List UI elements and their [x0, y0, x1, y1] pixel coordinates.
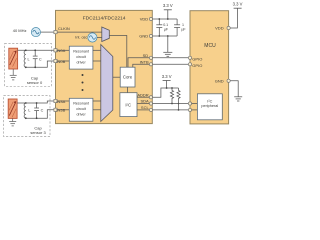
svg-text:I²C: I²C — [207, 99, 212, 103]
svg-text:GND: GND — [139, 34, 148, 39]
capacitor C sensor 3 — [34, 103, 39, 118]
svg-text:FDC2114/FDC2214: FDC2114/FDC2214 — [83, 15, 126, 21]
junction dots sensor 3 — [25, 102, 38, 119]
svg-text:circuit: circuit — [76, 107, 86, 111]
svg-text:circuit: circuit — [76, 55, 86, 59]
wire SD to GPIO — [152, 57, 188, 59]
ground decoupling — [163, 36, 172, 56]
pin GPIO 1 — [188, 56, 191, 59]
block resonant circuit driver 1 — [69, 46, 93, 69]
wire VDD rail — [152, 18, 177, 20]
pin INTB — [149, 63, 152, 66]
svg-text:SD: SD — [143, 53, 149, 58]
wire GND rail — [152, 35, 177, 37]
pin CLKIN — [54, 31, 57, 34]
svg-text:sensor 0: sensor 0 — [27, 80, 43, 85]
svg-text:IN0A: IN0A — [56, 48, 65, 53]
svg-text:sensor 3: sensor 3 — [30, 130, 46, 135]
pin ADDR — [149, 96, 152, 99]
supply 3.3V pull-ups — [162, 74, 172, 88]
pin IN0B — [54, 59, 57, 62]
wire int osc to clock mux — [97, 37, 102, 39]
svg-text:driver: driver — [76, 113, 86, 117]
svg-text:3.3 V: 3.3 V — [163, 3, 173, 8]
wire 40MHz osc to CLKIN — [41, 31, 54, 33]
pin SDA — [149, 102, 152, 105]
capacitor 0.1 uF — [156, 19, 162, 36]
wire sensor0 bottom to IN0B — [26, 61, 54, 67]
IC block FDC2114/FDC2214 — [56, 10, 153, 123]
wires driver 2 to channel mux — [93, 100, 101, 102]
wire IN0B to driver 1 — [57, 60, 69, 62]
dashed box cap sensor 0 — [5, 44, 52, 87]
junction dots pull-ups — [166, 87, 180, 111]
svg-text:Resonant: Resonant — [73, 50, 89, 54]
supply 3.3V MCU — [230, 1, 242, 28]
wire CLKIN to clock mux — [57, 31, 102, 33]
wire Core to SD pin — [128, 58, 152, 67]
clock mux — [102, 27, 110, 42]
block Core — [120, 67, 135, 87]
svg-text:VDD: VDD — [140, 17, 149, 22]
svg-text:Int. osc: Int. osc — [75, 35, 87, 39]
wires driver 1 to channel mux — [93, 49, 101, 51]
oscillator X1 40 MHz — [13, 27, 41, 36]
sensor element 0 — [9, 48, 18, 69]
svg-text:IN0B: IN0B — [56, 59, 65, 64]
wire clock mux to Core — [109, 36, 127, 68]
svg-text:40 MHz: 40 MHz — [13, 28, 27, 33]
pin SCL MCU — [188, 108, 191, 111]
pin SCL — [149, 108, 152, 111]
svg-text:1: 1 — [182, 23, 184, 27]
junction dots decoupling — [158, 18, 168, 37]
junction dots sensor 0 — [25, 49, 36, 68]
oscillator int. osc — [75, 33, 97, 42]
capacitor 1 uF — [174, 19, 180, 36]
wire sensor0 top to IN0A — [18, 49, 54, 51]
wire sensor3 top to IN3A — [17, 101, 54, 103]
wires MCU pins to I2C peripheral — [192, 103, 198, 105]
resistor pull-up SDA — [170, 88, 173, 104]
svg-text:IN3B: IN3B — [56, 108, 65, 113]
svg-text:Core: Core — [123, 75, 133, 80]
pin SDA MCU — [188, 102, 191, 105]
inductor L sensor 3 — [24, 103, 26, 118]
wire ADDR to 3.3V — [152, 88, 178, 97]
svg-text:INTB: INTB — [140, 60, 149, 65]
ground under sensor 3 — [9, 118, 16, 126]
wire SCL to MCU — [152, 109, 188, 111]
svg-text:peripheral: peripheral — [201, 104, 218, 108]
wire SDA to MCU — [152, 103, 188, 105]
pin SD — [149, 56, 152, 59]
inductor L sensor 0 — [24, 50, 26, 67]
svg-text:GPIO: GPIO — [192, 63, 202, 68]
wire I2C to ADDR pin — [137, 96, 152, 98]
wire Core to INTB pin — [133, 64, 152, 67]
supply 3.3V FDC — [163, 3, 173, 19]
svg-text:0.1: 0.1 — [163, 23, 168, 27]
wire sensor3 bottom to IN3B — [26, 110, 54, 118]
capacitor C sensor 0 — [33, 50, 38, 67]
svg-text:Resonant: Resonant — [73, 102, 89, 106]
wire I2C to SCL pin — [137, 109, 152, 111]
sensor element 3 — [8, 99, 17, 118]
svg-text:C: C — [41, 108, 44, 112]
block I2C peripheral — [197, 94, 222, 120]
svg-text:driver: driver — [76, 60, 86, 64]
svg-text:SCL: SCL — [141, 105, 150, 110]
svg-text:MCU: MCU — [204, 43, 216, 49]
wire INTB to GPIO — [152, 63, 188, 65]
channel mux — [101, 45, 113, 122]
pin IN3A — [54, 99, 57, 102]
IC block MCU — [190, 11, 229, 124]
wire IN3A to driver 2 — [57, 100, 69, 102]
pin IN0A — [54, 49, 57, 52]
wire Core to I2C — [127, 87, 129, 93]
svg-text:GND: GND — [215, 78, 224, 83]
resistor pull-up SCL — [177, 88, 180, 110]
wire IN0A to driver 1 — [57, 49, 69, 51]
svg-text:VDD: VDD — [215, 26, 224, 31]
ground MCU — [230, 81, 242, 101]
svg-text:C: C — [39, 57, 42, 61]
wire IN3B to driver 2 — [57, 109, 69, 111]
pin GPIO 2 — [188, 63, 191, 66]
svg-text:3.3 V: 3.3 V — [233, 1, 243, 6]
svg-text:3.3 V: 3.3 V — [162, 74, 172, 79]
svg-text:GPIO: GPIO — [192, 57, 202, 62]
svg-text:L: L — [28, 57, 30, 61]
block resonant circuit driver 2 — [69, 98, 93, 121]
wire I2C to SDA pin — [137, 103, 152, 105]
block I2C — [120, 93, 137, 117]
svg-text:I²C: I²C — [125, 102, 131, 107]
svg-text:IN3A: IN3A — [56, 99, 65, 104]
svg-text:SDA: SDA — [140, 99, 149, 104]
wire channel mux to Core — [113, 76, 120, 78]
ellipsis dots between drivers — [82, 74, 84, 91]
svg-text:CLKIN: CLKIN — [58, 26, 70, 31]
svg-text:L: L — [28, 108, 30, 112]
svg-text:ADDR: ADDR — [137, 92, 148, 97]
dashed box cap sensor 3 — [4, 96, 50, 137]
pin IN3B — [54, 108, 57, 111]
ground under sensor 0 — [10, 69, 17, 80]
